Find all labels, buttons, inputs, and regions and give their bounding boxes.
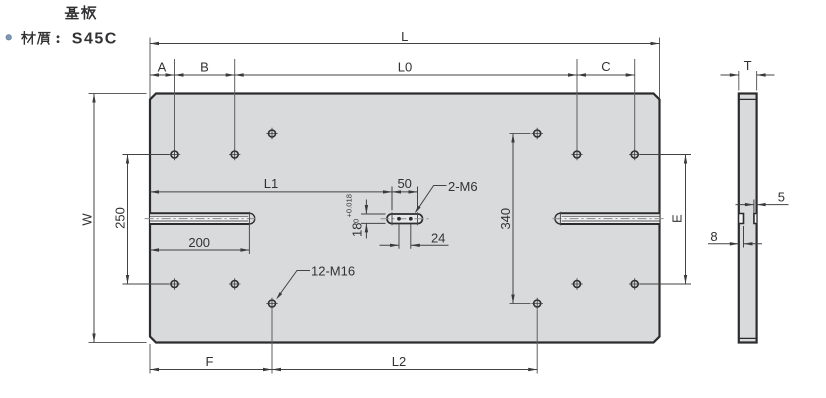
label 2-M6 with leader: [415, 179, 478, 213]
svg-text:L2: L2: [392, 354, 406, 369]
24-dim extension from right M6 hole: [410, 224, 412, 249]
dimension F: [150, 310, 272, 374]
svg-text:E: E: [670, 214, 685, 223]
label 材质 (drawn strokes): [22, 32, 50, 44]
M16 hole crosses: [169, 128, 641, 309]
dimension 250: [113, 155, 169, 285]
right keyway end tick: [559, 212, 561, 226]
svg-text:T: T: [744, 58, 752, 73]
fullwidth colon: [57, 35, 60, 38]
svg-text:12-M16: 12-M16: [311, 264, 355, 279]
middle slot centerline: [381, 218, 430, 220]
left keyway end tick / 200 extension: [248, 212, 250, 254]
svg-text:50: 50: [397, 176, 411, 191]
svg-text:L: L: [401, 29, 408, 44]
svg-text:340: 340: [498, 208, 513, 230]
M6 hole left: [397, 217, 401, 221]
svg-text:0: 0: [352, 219, 361, 223]
svg-text:F: F: [206, 354, 214, 369]
dimension 50: [392, 176, 418, 210]
svg-text:W: W: [80, 213, 95, 226]
svg-text:+0.018: +0.018: [345, 194, 354, 217]
svg-text:24: 24: [431, 230, 445, 245]
svg-text:250: 250: [113, 207, 128, 229]
plate front view: [150, 94, 660, 343]
dimension L1: [150, 176, 392, 193]
dimension E: [640, 155, 691, 285]
right keyway centerline: [553, 218, 667, 220]
svg-text:8: 8: [710, 229, 717, 244]
label 12-M16 with leader: [276, 264, 355, 300]
side view left notch (8 deep keyway section): [739, 214, 744, 224]
M16 holes (12x): [171, 130, 638, 307]
dimension T: [721, 58, 775, 91]
dimension 200: [150, 235, 249, 252]
dimension W: [80, 94, 147, 343]
dimension L2: [272, 310, 537, 374]
dimension 24: [380, 230, 449, 247]
dimension L0: [235, 59, 577, 76]
middle slot (2-M6 obround): [387, 212, 423, 225]
svg-text:C: C: [601, 59, 610, 74]
dimension B: [175, 59, 235, 76]
side view bottom chamfer line: [739, 337, 757, 339]
svg-text:18: 18: [350, 223, 365, 237]
side view plate: [739, 94, 757, 343]
svg-text:B: B: [200, 59, 209, 74]
title 基板 (drawn strokes): [66, 6, 96, 19]
dimension 18 +0.018/0: [345, 194, 386, 238]
24-dim extension from left M6 hole: [398, 224, 400, 249]
dimension A: [150, 59, 175, 76]
right keyway slot: [555, 213, 659, 224]
svg-text:L1: L1: [264, 176, 278, 191]
svg-text:5: 5: [778, 190, 785, 205]
svg-text:A: A: [158, 59, 167, 74]
svg-text:L0: L0: [398, 59, 412, 74]
svg-text:S45C: S45C: [72, 30, 118, 47]
dimension C: [577, 59, 635, 77]
dimension 5 (side view right notch): [736, 190, 789, 213]
M6 hole right: [409, 217, 413, 221]
dimension L: [150, 29, 660, 98]
bullet: [6, 35, 11, 40]
svg-text:200: 200: [188, 235, 210, 250]
dimension 8 (side view left notch): [708, 226, 762, 248]
left keyway slot: [150, 213, 255, 224]
side view right notch (5 deep keyway section): [754, 214, 757, 224]
extension lines for A/B/L0/C: [175, 59, 635, 149]
svg-text:2-M6: 2-M6: [448, 179, 478, 194]
side view top chamfer line: [739, 98, 757, 100]
dimension 340: [498, 134, 530, 304]
left keyway centerline: [145, 218, 257, 220]
